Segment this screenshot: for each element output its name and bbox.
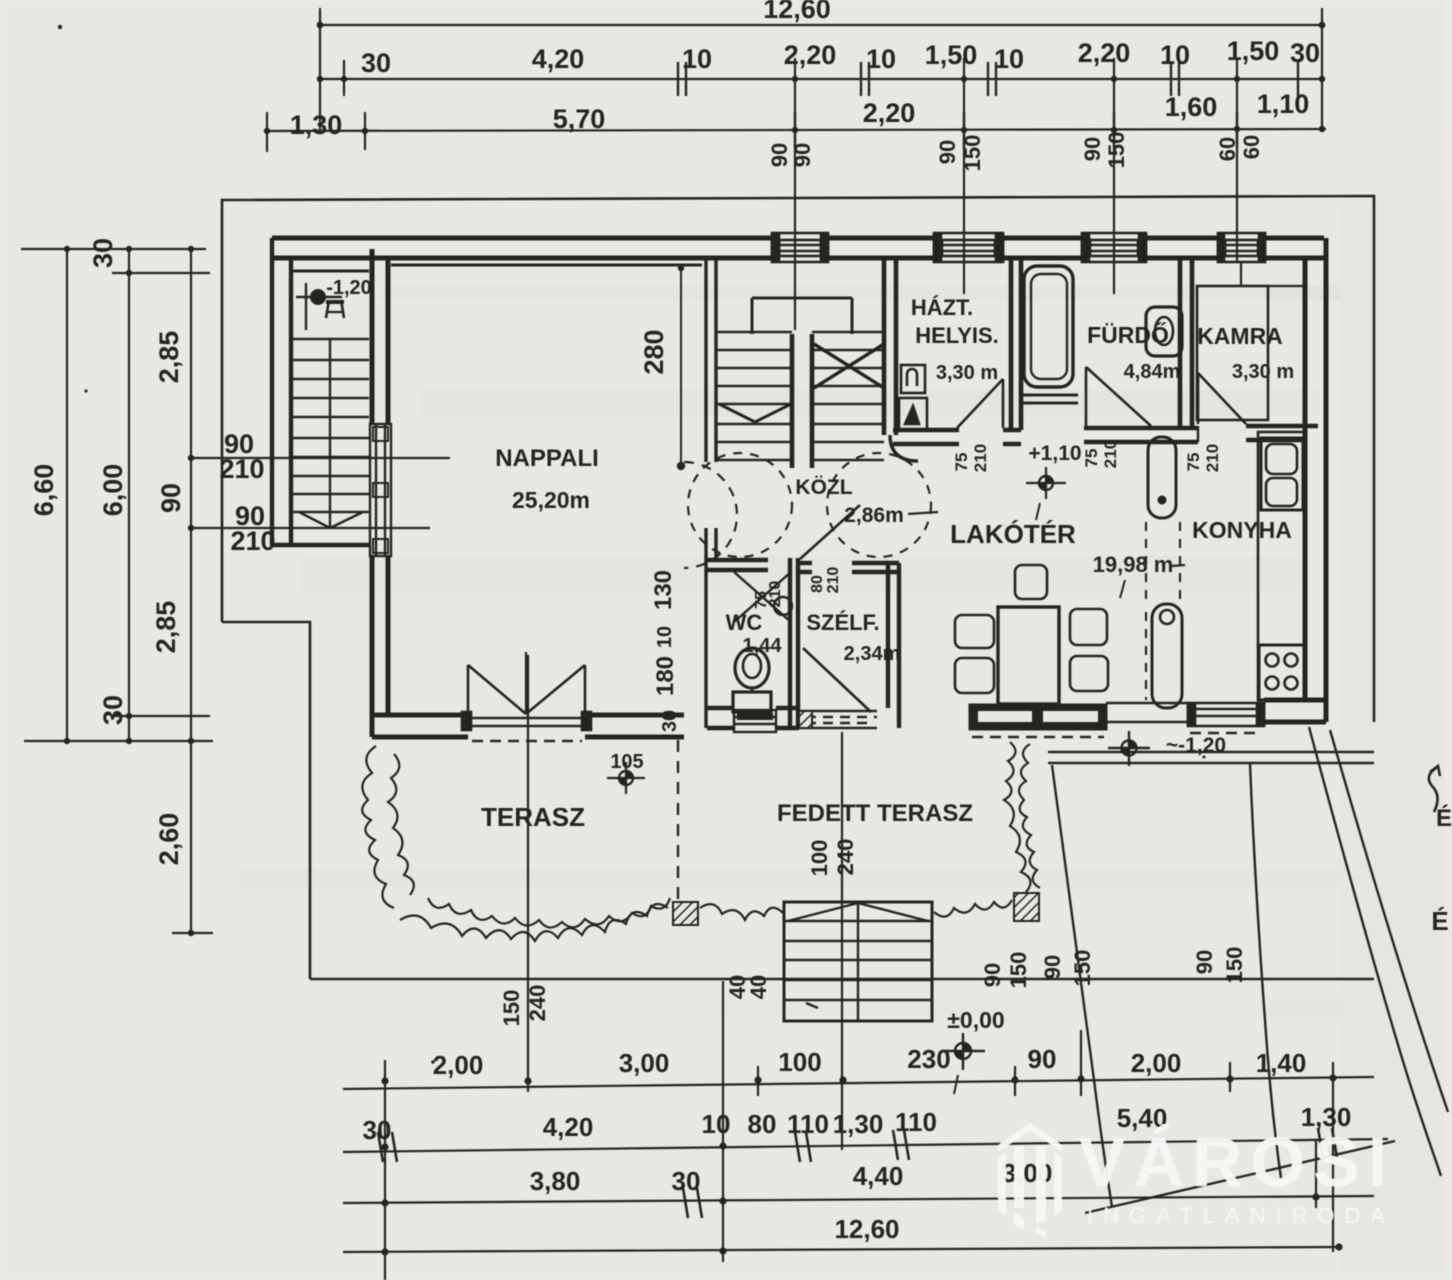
svg-text:1,50: 1,50 [1227, 36, 1280, 66]
svg-text:75: 75 [952, 453, 971, 472]
svg-text:HELYIS.: HELYIS. [915, 323, 999, 348]
svg-text:150: 150 [1006, 952, 1031, 989]
svg-text:210: 210 [767, 581, 784, 608]
svg-text:1,50: 1,50 [925, 40, 978, 70]
svg-text:90: 90 [980, 963, 1005, 987]
chimney blocks [1148, 437, 1182, 708]
svg-text:10: 10 [994, 44, 1024, 74]
svg-text:~-1,20: ~-1,20 [1166, 734, 1226, 757]
svg-text:280: 280 [639, 329, 669, 374]
svg-text:3,30 m: 3,30 m [936, 362, 998, 384]
svg-text:30: 30 [672, 1166, 701, 1196]
garden path curves [1052, 727, 1448, 1213]
svg-text:3,30 m: 3,30 m [1232, 361, 1294, 383]
svg-text:210: 210 [1101, 440, 1120, 468]
benchmark 105 [607, 751, 645, 794]
svg-text:12,60: 12,60 [834, 1214, 899, 1244]
svg-text:1,30: 1,30 [290, 110, 343, 140]
svg-text:2,20: 2,20 [784, 40, 837, 70]
dashed door arcs in hall [688, 453, 931, 557]
svg-text:12,60: 12,60 [763, 0, 831, 24]
svg-text:30: 30 [98, 695, 128, 725]
svg-text:VÁROSI: VÁROSI [1079, 1123, 1395, 1201]
svg-text:210: 210 [1203, 444, 1222, 472]
svg-text:NAPPALI: NAPPALI [495, 445, 599, 472]
svg-text:6,60: 6,60 [29, 464, 59, 517]
svg-text:1,10: 1,10 [1257, 89, 1310, 119]
svg-text:240: 240 [833, 839, 858, 876]
svg-text:210: 210 [825, 567, 842, 594]
shrub wavy lines [362, 742, 1040, 941]
windows top wall [772, 233, 1265, 262]
wc window [734, 710, 776, 732]
svg-text:75: 75 [1184, 453, 1203, 472]
svg-text:80: 80 [748, 1109, 777, 1139]
svg-text:130: 130 [650, 570, 677, 610]
scan specks [58, 25, 62, 29]
left wall of nappali with door frame [372, 249, 388, 737]
svg-text:2,00: 2,00 [433, 1050, 484, 1080]
nappali inner top face [391, 264, 702, 267]
bathtub [1024, 266, 1073, 387]
window centerlines down to house [794, 58, 796, 262]
svg-text:1,30: 1,30 [833, 1109, 884, 1139]
svg-text:4,84m: 4,84m [1124, 361, 1181, 383]
svg-text:5,70: 5,70 [553, 104, 606, 134]
dashed fedett terasz left edge [677, 740, 679, 900]
svg-text:30: 30 [361, 48, 391, 78]
door [1086, 262, 1151, 426]
svg-text:230: 230 [907, 1044, 950, 1074]
svg-text:30: 30 [659, 710, 681, 732]
svg-text:25,20m: 25,20m [512, 487, 590, 513]
svg-text:110: 110 [787, 1109, 829, 1139]
svg-text:30: 30 [363, 1115, 392, 1145]
svg-text:90: 90 [1040, 955, 1065, 979]
dining set [955, 565, 1108, 704]
svg-text:90: 90 [790, 143, 815, 167]
room label nappali [495, 445, 599, 513]
svg-text:210: 210 [219, 454, 264, 484]
svg-text:150: 150 [1070, 950, 1095, 987]
svg-text:+1,10: +1,10 [1028, 442, 1081, 465]
nappali bottom wall with french door [372, 715, 684, 737]
svg-text:210: 210 [230, 526, 275, 556]
door frame element in left wall [370, 424, 391, 556]
svg-text:100: 100 [807, 840, 832, 877]
svg-text:2,00: 2,00 [1131, 1048, 1182, 1078]
verticals [384, 1060, 386, 1280]
rotated labels near path [499, 947, 1247, 1027]
svg-text:É: É [1431, 906, 1448, 936]
svg-text:3,80: 3,80 [530, 1166, 581, 1196]
treads [717, 331, 792, 334]
svg-text:HÁZT.: HÁZT. [911, 295, 973, 320]
svg-text:90: 90 [767, 143, 792, 167]
svg-text:±0,00: ±0,00 [947, 1007, 1004, 1033]
svg-text:LAKÓTÉR: LAKÓTÉR [950, 519, 1076, 549]
svg-text:150: 150 [960, 135, 985, 172]
toilet [733, 648, 771, 712]
entry threshold [799, 711, 877, 728]
sink [1146, 307, 1182, 356]
svg-text:10: 10 [702, 1109, 731, 1139]
svg-text:75: 75 [1082, 449, 1101, 468]
rotated window-size labels under row 3 [767, 132, 1264, 172]
svg-text:10: 10 [654, 626, 676, 648]
dashed door arc nappali SE [684, 462, 737, 568]
svg-text:60: 60 [1239, 135, 1264, 159]
direction marks [719, 404, 755, 422]
svg-text:240: 240 [525, 985, 550, 1022]
dim row 1 overall 12,60 [320, 24, 1322, 26]
svg-text:150: 150 [1222, 947, 1247, 984]
svg-text:100: 100 [778, 1047, 821, 1077]
dim row 2 [320, 78, 1322, 80]
svg-text:2,85: 2,85 [151, 601, 181, 654]
svg-text:80: 80 [809, 575, 826, 593]
svg-text:INGATLANIRODA: INGATLANIRODA [1087, 1203, 1395, 1228]
svg-text:4,20: 4,20 [532, 44, 585, 74]
svg-text:2,60: 2,60 [154, 813, 184, 866]
svg-text:180: 180 [652, 656, 679, 696]
svg-text:90: 90 [1028, 1044, 1057, 1074]
svg-text:150: 150 [499, 990, 524, 1027]
svg-text:2,34m: 2,34m [844, 643, 901, 665]
north arrows [1429, 766, 1452, 936]
svg-text:90: 90 [1080, 137, 1105, 161]
svg-text:É: É [1436, 804, 1452, 832]
bottom wall right part (konyha/lakoter) [1106, 700, 1326, 722]
double hash ticks bottom [378, 1128, 1337, 1218]
svg-text:90: 90 [935, 140, 960, 164]
svg-text:-1,20: -1,20 [326, 277, 372, 299]
mid wall between nappali and stair hall [706, 258, 716, 728]
tick marks row2 [678, 62, 1298, 148]
svg-text:30: 30 [1290, 38, 1320, 68]
svg-text:150: 150 [1104, 132, 1129, 169]
exterior top wall [272, 238, 1324, 258]
svg-text:FEDETT TERASZ: FEDETT TERASZ [777, 800, 973, 827]
svg-text:KAMRA: KAMRA [1197, 323, 1283, 349]
window W5 bottom [1188, 703, 1264, 733]
dimension texts top [290, 0, 1320, 140]
svg-text:SZÉLF.: SZÉLF. [806, 610, 879, 635]
svg-text:2,86m: 2,86m [844, 504, 904, 527]
benchmark -1,20 top stair [296, 277, 372, 330]
svg-text:1,60: 1,60 [1165, 92, 1218, 122]
svg-text:TERASZ: TERASZ [481, 802, 585, 832]
svg-text:FÜRDŐ: FÜRDŐ [1087, 321, 1169, 348]
svg-text:1,40: 1,40 [1256, 1048, 1307, 1078]
door leaders into plan [191, 457, 450, 459]
benchmark 0,00 [941, 1007, 1005, 1094]
svg-text:90: 90 [1192, 950, 1217, 974]
svg-text:10: 10 [866, 44, 896, 74]
svg-text:4,20: 4,20 [543, 1112, 594, 1142]
garden stairs [784, 902, 932, 1021]
svg-text:210: 210 [971, 444, 990, 472]
svg-text:3,00: 3,00 [619, 1048, 670, 1078]
svg-text:19,98 m: 19,98 m [1093, 552, 1174, 577]
svg-text:2,20: 2,20 [1078, 38, 1131, 68]
core [790, 334, 795, 468]
svg-text:90: 90 [156, 483, 186, 513]
svg-text:10: 10 [682, 44, 712, 74]
svg-text:10: 10 [1160, 40, 1190, 70]
hatched posts [673, 902, 698, 925]
right exterior wall [1305, 238, 1326, 722]
svg-text:WC: WC [726, 610, 763, 635]
svg-text:KONYHA: KONYHA [1192, 517, 1292, 543]
svg-text:30: 30 [88, 238, 118, 268]
svg-text:110: 110 [895, 1107, 937, 1137]
sliding glass door W6 bottom [970, 705, 1106, 737]
bottom dim texts [363, 1044, 1352, 1244]
svg-text:6,00: 6,00 [98, 464, 128, 517]
svg-text:4,40: 4,40 [853, 1161, 904, 1191]
svg-text:2,85: 2,85 [154, 331, 184, 384]
dim line next to mid wall [680, 265, 682, 466]
svg-text:2,20: 2,20 [863, 98, 916, 128]
svg-text:60: 60 [1215, 137, 1240, 161]
svg-text:KÖZL: KÖZL [795, 476, 852, 499]
svg-text:40: 40 [746, 975, 771, 999]
benchmark -1,20 right [1108, 731, 1226, 766]
dim row 3 [267, 129, 1326, 131]
landing [752, 297, 852, 300]
